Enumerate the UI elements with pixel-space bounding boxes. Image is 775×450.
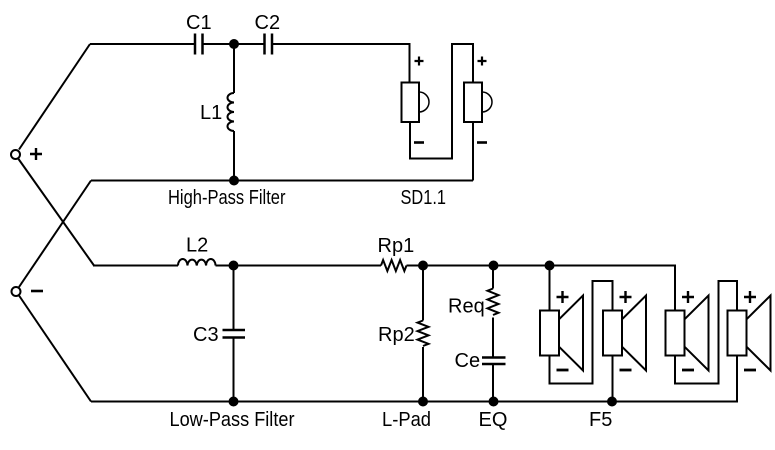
tweeter SP2 [464,57,492,143]
wire mid rail left segment [93,265,178,267]
woofer SP3 [540,291,583,371]
node dot bottom rail under Ce [489,397,499,407]
terminal - (input negative) [12,287,44,296]
svg-text:SD1.1: SD1.1 [401,187,447,209]
wire bottom rail [91,356,737,402]
wire tweeter 2 return to rail [472,122,474,181]
svg-text:EQ: EQ [479,409,508,431]
tweeter SP1 [402,57,430,143]
wire top rail left segment [90,43,194,45]
terminal + (input positive) [11,148,42,160]
node dot high-pass return under L1 [229,176,239,186]
woofer SP4 [603,291,646,371]
wire woofer 2 return to bottom rail [612,356,614,402]
woofer SP5 [666,291,709,371]
svg-text:High-Pass Filter: High-Pass Filter [168,187,286,209]
wire tweeter 1 return through inverted U to tweeter 2 [410,44,473,159]
wire high-pass return rail [91,180,473,182]
woofer SP6 [728,291,771,371]
capacitor Ce [482,318,506,402]
wire top rail between C1 and C2 [204,43,264,45]
svg-text:Low-Pass Filter: Low-Pass Filter [170,409,295,431]
svg-text:Ce: Ce [455,350,481,372]
wire woofer 1 feed [549,266,551,311]
svg-text:L-Pad: L-Pad [382,409,431,431]
svg-text:C2: C2 [255,12,281,34]
svg-text:L1: L1 [200,102,222,124]
svg-text:Req: Req [448,296,485,318]
wire diagonal from - terminal to high-pass return rail [19,181,91,288]
wire diagonal from + terminal to top rail [19,44,90,150]
wire mid rail from Rp1 to F5 corner and woofer 3 feed [407,266,676,311]
svg-text:C1: C1 [186,12,212,34]
node dot mid rail after L2 [229,261,239,271]
svg-text:L2: L2 [186,235,208,257]
wire diagonal from + terminal to low-pass mid rail [19,159,95,266]
svg-text:C3: C3 [193,324,219,346]
inductor L1 [228,44,235,181]
resistor Rp2 [418,266,429,402]
wire mid rail from L2 to Rp1 [216,265,382,267]
node dot mid rail EQ [489,261,499,271]
wire diagonal from - terminal to bottom rail [19,296,91,402]
inductor L2 [178,259,216,265]
svg-text:F5: F5 [589,409,612,431]
node dot bottom rail under woofer 2 [607,397,617,407]
wire top rail right segment to tweeter 1 feed [273,44,410,83]
node dot bottom rail under C3 [229,397,239,407]
capacitor C3 [223,266,246,402]
capacitor C2 [265,34,273,55]
resistor Rp1 [381,260,407,271]
node dot bottom rail under Rp2 [418,397,428,407]
capacitor C1 [195,34,203,55]
wire woofer 3 to woofer 4 series link [675,281,737,384]
svg-text:Rp1: Rp1 [378,235,415,257]
node dot mid rail L-Pad [418,261,428,271]
node dot top rail [229,39,239,49]
resistor Req [488,266,499,316]
wire woofer 1 to woofer 2 series link [550,281,613,384]
node dot mid rail F5 [545,261,555,271]
svg-text:Rp2: Rp2 [378,324,415,346]
